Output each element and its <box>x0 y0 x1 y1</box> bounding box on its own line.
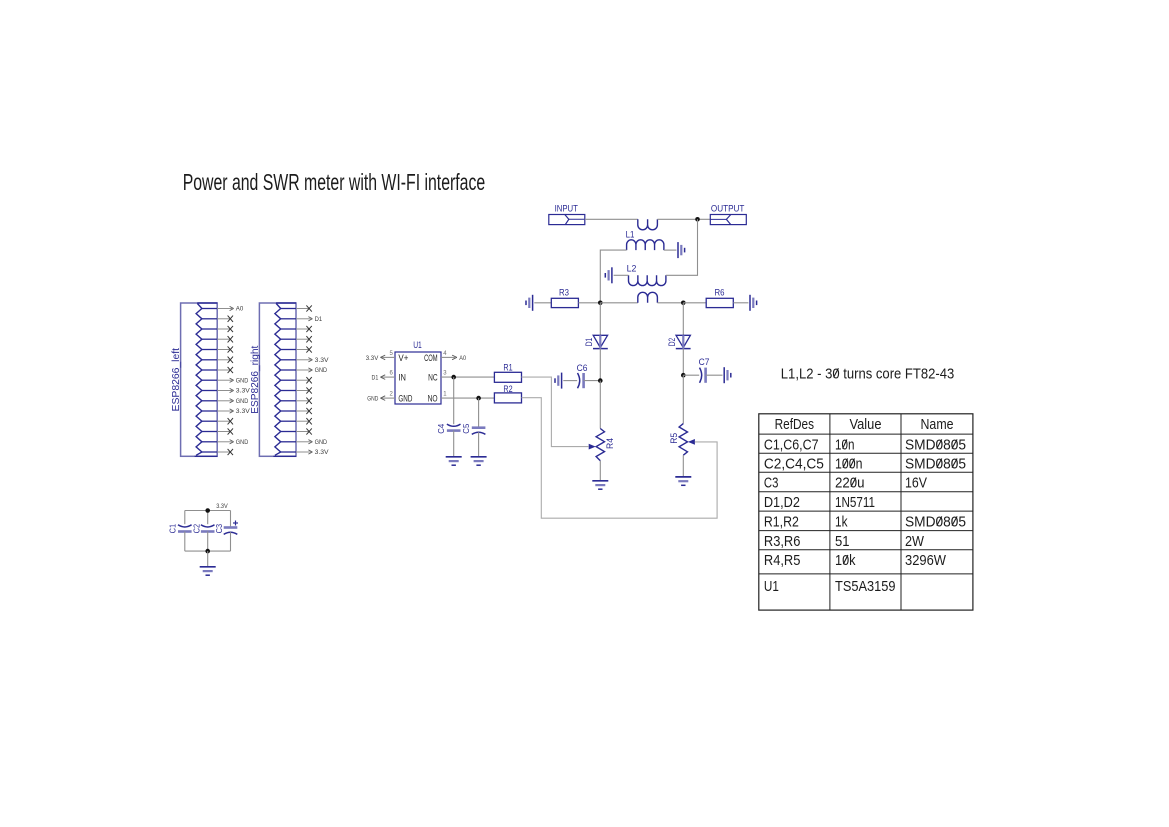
table header row <box>775 416 954 433</box>
svg-text:3.3V: 3.3V <box>366 355 379 362</box>
svg-text:3.3V: 3.3V <box>236 388 251 395</box>
connector ESP8266_right pin 10 no-connect <box>296 398 312 404</box>
svg-text:D1: D1 <box>315 316 323 323</box>
capacitor C6 <box>577 362 588 388</box>
svg-text:Power and SWR meter with WI-FI: Power and SWR meter with WI-FI interface <box>183 169 486 195</box>
svg-text:R6: R6 <box>715 286 725 297</box>
svg-text:3.3V: 3.3V <box>315 357 330 364</box>
svg-text:GND: GND <box>315 439 328 446</box>
table row R1,R2 <box>764 514 966 531</box>
svg-text:C2,C4,C5: C2,C4,C5 <box>764 456 824 473</box>
connector ESP8266_left zigzag <box>195 303 218 456</box>
ground for L1 <box>678 242 685 258</box>
svg-text:COM: COM <box>424 353 438 363</box>
svg-text:220u: 220u <box>835 475 865 492</box>
U1 pin 2 wire net GND <box>367 392 395 403</box>
svg-text:R5: R5 <box>669 433 679 444</box>
svg-text:C1,C6,C7: C1,C6,C7 <box>764 437 819 454</box>
connector ESP8266_right pin 2 net D1 <box>296 316 323 323</box>
potentiometer R4 <box>589 429 615 461</box>
resistor R3 <box>551 286 578 307</box>
ground left of R3 <box>526 295 533 311</box>
connector ESP8266_right pin 13 no-connect <box>296 428 312 434</box>
connector ESP8266_right body <box>259 303 296 456</box>
svg-text:IN: IN <box>398 373 406 383</box>
wire node B to R6 <box>683 302 706 304</box>
connector ESP8266_left pin 1 net A0 <box>217 306 244 313</box>
wire L1 left lead down to node <box>600 250 626 303</box>
wire node to R5 <box>682 375 684 423</box>
diode D1 <box>584 335 608 348</box>
table grid <box>759 414 973 610</box>
svg-text:3: 3 <box>443 371 447 377</box>
svg-text:C3: C3 <box>764 475 779 492</box>
ground rail wire <box>185 550 231 552</box>
U1 pin 3 wire to R1 <box>441 371 494 378</box>
svg-text:ESP8266_left: ESP8266_left <box>171 348 182 412</box>
wire node A to transformer secondary <box>600 302 638 304</box>
svg-text:16V: 16V <box>905 475 927 492</box>
inductor L2 <box>627 263 666 286</box>
svg-text:D1: D1 <box>584 338 594 347</box>
potentiometer R5 <box>669 424 695 456</box>
svg-text:NC: NC <box>428 373 438 383</box>
svg-text:C5: C5 <box>461 424 471 434</box>
connector ESP8266_left pin 8 net GND <box>217 377 248 384</box>
svg-text:GND: GND <box>367 396 378 403</box>
svg-text:2: 2 <box>389 392 393 398</box>
ground for R5 <box>675 477 691 485</box>
wire R6 to ground <box>733 302 748 304</box>
wire L1 right lead <box>664 249 677 251</box>
ground for C4 <box>446 457 462 465</box>
connector ESP8266_right zigzag <box>273 303 296 456</box>
svg-text:R2: R2 <box>503 383 512 394</box>
connector ESP8266_left pin 11 net 3.3V <box>217 408 250 415</box>
net label 3.3V <box>216 503 228 510</box>
svg-text:GND: GND <box>236 377 249 384</box>
resistor R2 <box>494 383 521 403</box>
wire transformer to OUTPUT <box>657 218 710 220</box>
svg-text:3.3V: 3.3V <box>315 449 330 456</box>
connector ESP8266_left pin 3 no-connect <box>217 326 233 332</box>
svg-text:R4,R5: R4,R5 <box>764 552 801 569</box>
capacitor C4 <box>436 377 460 457</box>
wire ground to R3 <box>534 302 551 304</box>
table row C2,C4,C5 <box>764 456 966 473</box>
wire R1 to R4 wiper <box>522 377 589 447</box>
wire C6 to node <box>584 380 601 382</box>
junction node B <box>681 301 686 306</box>
table row D1,D2 <box>764 494 875 511</box>
svg-text:INPUT: INPUT <box>555 202 579 213</box>
ground for L2 <box>605 267 612 283</box>
table row U1 <box>764 578 896 595</box>
wire node B to D2 <box>682 303 684 336</box>
svg-text:C7: C7 <box>699 356 710 367</box>
wire transformer secondary to node B <box>657 302 683 304</box>
connector ESP8266_right pin 1 no-connect <box>296 305 312 311</box>
svg-text:V+: V+ <box>398 353 408 363</box>
connector ESP8266_right pin 11 no-connect <box>296 408 312 414</box>
connector ESP8266_right reference label <box>250 345 261 413</box>
capacitor C5 <box>461 398 485 457</box>
svg-text:R1: R1 <box>503 362 512 373</box>
capacitor C1 <box>167 511 191 552</box>
wire D1 to node C6 <box>599 349 601 381</box>
connector ESP8266_right pin 15 net 3.3V <box>296 449 329 456</box>
svg-text:R3,R6: R3,R6 <box>764 533 801 550</box>
ground right of C7 <box>724 367 731 383</box>
svg-text:GND: GND <box>398 394 412 404</box>
U1 pin 1 wire to R2 <box>441 392 494 399</box>
svg-text:4: 4 <box>443 351 447 357</box>
svg-text:C2: C2 <box>191 524 201 534</box>
ground left of C6 <box>555 373 562 389</box>
wire node A to D1 <box>599 303 601 336</box>
connector ESP8266_right pin 4 no-connect <box>296 336 312 342</box>
svg-text:L1: L1 <box>626 228 635 239</box>
svg-text:100n: 100n <box>835 456 863 473</box>
wire D2 to node C7 <box>682 349 684 376</box>
junction node A <box>598 301 603 306</box>
connector ESP8266_right pin 7 net GND <box>296 367 327 374</box>
connector ESP8266_left pin 13 no-connect <box>217 428 233 434</box>
table row R4,R5 <box>764 552 947 569</box>
note L1 L2 winding text <box>781 365 955 382</box>
svg-text:SMD0805: SMD0805 <box>905 456 966 473</box>
ground <box>200 567 216 575</box>
connector INPUT <box>549 202 585 224</box>
connector ESP8266_left pin 6 no-connect <box>217 357 233 363</box>
svg-text:SMD0805: SMD0805 <box>905 514 966 531</box>
wire node to C7 <box>683 374 699 376</box>
junction node C6/D1/R4 <box>598 378 603 383</box>
connector ESP8266_left pin 9 net 3.3V <box>217 388 250 395</box>
svg-text:Name: Name <box>921 416 954 433</box>
resistor R1 <box>494 362 521 383</box>
svg-text:3.3V: 3.3V <box>236 408 251 415</box>
svg-text:6: 6 <box>389 371 393 377</box>
table row C3 <box>764 475 927 492</box>
svg-text:C3: C3 <box>214 524 224 534</box>
svg-text:R4: R4 <box>605 438 615 449</box>
table row R3,R6 <box>764 533 925 550</box>
connector ESP8266_left body <box>181 303 218 456</box>
connector OUTPUT <box>710 202 746 224</box>
svg-text:C1: C1 <box>167 524 177 534</box>
svg-text:U1: U1 <box>764 578 779 595</box>
junction node ground rail <box>205 549 210 554</box>
svg-text:TS5A3159: TS5A3159 <box>835 578 896 595</box>
svg-text:A0: A0 <box>236 306 244 313</box>
svg-text:A0: A0 <box>459 355 466 362</box>
connector ESP8266_left pin 5 no-connect <box>217 346 233 352</box>
svg-text:OUTPUT: OUTPUT <box>711 202 745 213</box>
wire to ground <box>207 551 209 567</box>
svg-text:L1,L2 - 30 turns core FT82-43: L1,L2 - 30 turns core FT82-43 <box>781 365 955 382</box>
svg-text:1N5711: 1N5711 <box>835 494 875 511</box>
connector ESP8266_right pin 12 no-connect <box>296 418 312 424</box>
svg-text:1: 1 <box>443 392 447 398</box>
svg-text:3296W: 3296W <box>905 552 947 569</box>
capacitor C7 <box>699 356 710 383</box>
connector ESP8266_left pin 14 net GND <box>217 439 248 446</box>
diode D2 <box>667 335 691 348</box>
wire L2 right lead up to OUTPUT node <box>666 219 698 275</box>
op-amp U1 TS5A3159 body <box>395 340 441 404</box>
svg-text:5: 5 <box>389 351 393 357</box>
ground for R4 <box>592 481 608 489</box>
junction node 3.3V rail <box>205 508 210 513</box>
inductor L1 <box>626 228 664 250</box>
junction node C7/D2/R5 <box>681 373 686 378</box>
capacitor C2 <box>191 511 214 552</box>
junction node OUTPUT <box>695 217 700 222</box>
junction node NO/C5 <box>476 396 481 401</box>
wire R3 to node A <box>578 302 600 304</box>
U1 pin 4 wire net A0 <box>441 351 466 362</box>
inductor transformer secondary <box>638 292 658 303</box>
connector ESP8266_left pin 2 no-connect <box>217 316 233 322</box>
capacitor C3 polarized <box>214 511 238 552</box>
connector ESP8266_left pin 10 net GND <box>217 398 248 405</box>
table row C1,C6,C7 <box>764 437 966 454</box>
ground for C5 <box>471 457 487 465</box>
svg-text:L2: L2 <box>627 263 637 274</box>
svg-text:D1,D2: D1,D2 <box>764 494 800 511</box>
U1 pin 6 wire net D1 <box>372 371 396 382</box>
svg-text:SMD0805: SMD0805 <box>905 437 966 454</box>
svg-text:Value: Value <box>850 416 882 433</box>
3.3V supply rail wire <box>185 510 231 512</box>
wire C7 to ground <box>706 374 723 376</box>
svg-text:GND: GND <box>236 439 249 446</box>
connector ESP8266_right pin 5 no-connect <box>296 346 312 352</box>
svg-text:C6: C6 <box>577 362 588 373</box>
svg-text:1k: 1k <box>835 514 848 531</box>
connector ESP8266_left pin 7 no-connect <box>217 367 233 373</box>
svg-text:R3: R3 <box>559 286 569 297</box>
connector ESP8266_right pin 8 no-connect <box>296 377 312 383</box>
ground right of R6 <box>750 295 757 311</box>
U1 pin 5 wire net 3.3V <box>366 351 395 362</box>
connector ESP8266_right pin 3 no-connect <box>296 326 312 332</box>
connector ESP8266_left pin 15 no-connect <box>217 449 233 455</box>
junction node NC/C4 <box>451 375 456 380</box>
svg-text:C4: C4 <box>436 424 446 434</box>
connector ESP8266_left reference label <box>171 348 182 412</box>
wire node to R4 <box>599 381 601 429</box>
connector ESP8266_right pin 14 net GND <box>296 439 327 446</box>
resistor R6 <box>706 286 733 307</box>
svg-text:2W: 2W <box>905 533 925 550</box>
wire R5 to ground <box>682 455 684 477</box>
svg-text:NO: NO <box>428 394 438 404</box>
wire INPUT to transformer <box>585 218 638 220</box>
connector ESP8266_left pin 12 no-connect <box>217 418 233 424</box>
connector ESP8266_right pin 6 net 3.3V <box>296 357 329 364</box>
svg-text:GND: GND <box>315 367 328 374</box>
svg-text:D1: D1 <box>372 375 379 382</box>
inductor transformer primary top <box>638 219 658 230</box>
svg-text:U1: U1 <box>413 340 422 350</box>
svg-text:3.3V: 3.3V <box>216 503 228 510</box>
svg-text:RefDes: RefDes <box>775 416 814 433</box>
svg-text:R1,R2: R1,R2 <box>764 514 799 531</box>
wire R4 to ground <box>599 461 601 481</box>
svg-text:D2: D2 <box>667 338 677 347</box>
svg-text:GND: GND <box>236 398 249 405</box>
connector ESP8266_left pin 4 no-connect <box>217 336 233 342</box>
connector ESP8266_right pin 9 no-connect <box>296 387 312 393</box>
wire ground to C6 <box>563 380 577 382</box>
wire R2 to R5 wiper <box>522 398 718 519</box>
wire ground to L2 <box>614 274 629 276</box>
svg-text:ESP8266_right: ESP8266_right <box>250 345 261 413</box>
svg-text:51: 51 <box>835 533 850 550</box>
